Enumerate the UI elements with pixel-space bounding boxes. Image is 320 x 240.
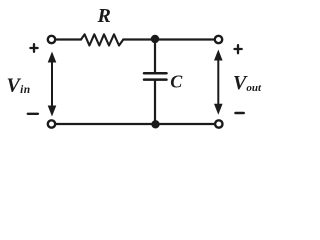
node: bottom junction dot [152,121,159,128]
terminal: bottom-left [48,120,55,127]
arrow Vout (double-headed) [217,58,219,106]
wire: resistor to top-right terminal [123,38,214,40]
terminal: top-left [48,36,55,43]
terminal: bottom-right [215,120,222,127]
plus sign right [235,45,242,53]
minus sign left [28,113,38,115]
arrow Vin (double-headed) [51,60,53,107]
svg-text:R: R [97,5,111,27]
capacitor C [144,72,167,75]
resistor R [81,34,123,45]
terminal: top-right [215,36,222,43]
arrowhead Vin top [48,52,57,63]
svg-text:Vout: Vout [233,72,262,94]
svg-text:Vin: Vin [7,75,31,97]
wire: junction down to capacitor [154,40,156,72]
minus sign right [236,112,244,115]
node: top junction dot [151,35,158,42]
svg-text:C: C [170,72,183,92]
arrowhead Vout bottom [214,104,223,115]
wire: capacitor down to bottom junction [154,81,156,124]
wire: top-left terminal to resistor [56,38,81,40]
arrowhead Vout top [214,50,223,61]
wire: bottom rail [56,123,214,125]
arrowhead Vin bottom [48,106,57,117]
plus sign left [30,44,37,52]
